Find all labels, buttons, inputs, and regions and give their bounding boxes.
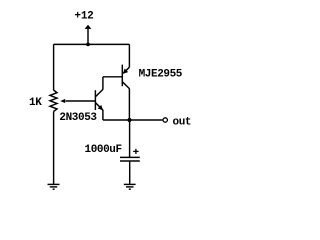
svg-text:MJE2955: MJE2955 xyxy=(139,69,183,81)
svg-text:2N3053: 2N3053 xyxy=(59,112,97,124)
svg-text:out: out xyxy=(173,117,192,129)
svg-text:1K: 1K xyxy=(29,97,42,109)
svg-text:1000uF: 1000uF xyxy=(85,144,122,156)
svg-text:12: 12 xyxy=(81,10,93,22)
